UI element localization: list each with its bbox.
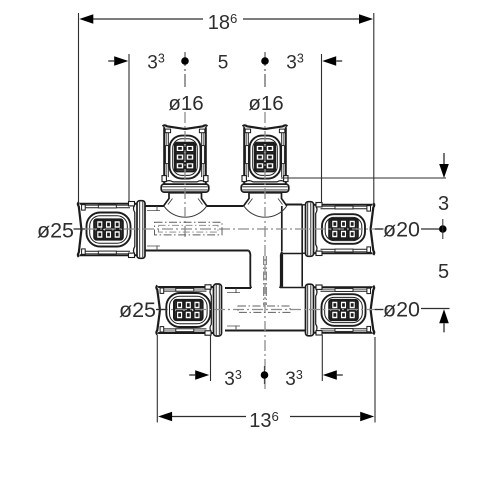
svg-text:ø25: ø25 xyxy=(119,298,156,322)
barrel connector xyxy=(249,251,283,292)
dim 18-6 extension line right xyxy=(373,13,375,203)
svg-text:ø16: ø16 xyxy=(168,92,203,115)
svg-text:ø20: ø20 xyxy=(383,298,420,322)
hidden bore lines vertical branch xyxy=(263,256,265,305)
hidden bore box lower xyxy=(238,306,290,312)
centerline port2 vertical xyxy=(264,52,266,87)
dim row2 arrow right xyxy=(322,56,336,66)
port1 socket arc xyxy=(164,206,207,217)
svg-text:5: 5 xyxy=(218,52,229,73)
centerline main tube horizontal xyxy=(86,228,388,230)
press fitting left upper (d25) xyxy=(78,201,145,259)
label d20 upper leader xyxy=(375,228,384,230)
lower tube xyxy=(225,288,306,331)
right collar web between ports xyxy=(282,254,302,288)
press fitting top port1 (d16) xyxy=(161,125,209,192)
dim 13-6 line xyxy=(172,416,246,418)
press fitting top port2 (d16) xyxy=(241,125,289,192)
bottom ext line left xyxy=(210,335,212,381)
press fitting left lower (d25) xyxy=(156,284,221,336)
dim row2 ext line right xyxy=(321,54,323,203)
dim row2 ext line left xyxy=(128,54,130,201)
dim row2 dot port2 xyxy=(261,57,269,65)
dim 13-6 ext line right xyxy=(374,337,376,423)
bottom row dot xyxy=(264,366,266,384)
lower tube inner wall lines xyxy=(227,292,240,294)
main tube xyxy=(145,206,283,251)
bottom row arrow right xyxy=(323,370,337,380)
dim 13-6 ext line left xyxy=(156,335,158,423)
centerline lower tube horizontal xyxy=(157,309,388,311)
collar-flange connector lines lower xyxy=(302,287,306,289)
port1 neck and flare xyxy=(164,193,207,206)
centerline port1 vertical xyxy=(184,52,186,87)
collar-flange connector lines upper xyxy=(302,204,306,206)
tube collar tick left xyxy=(156,206,158,211)
svg-text:5: 5 xyxy=(438,261,449,283)
right ext line top xyxy=(281,177,446,179)
hidden bore box upper xyxy=(155,222,223,235)
svg-text:ø20: ø20 xyxy=(383,218,420,242)
press fitting right upper (d20) xyxy=(306,202,375,257)
bottom ext line right xyxy=(321,335,323,381)
dim 18-6 arrow right xyxy=(359,14,373,24)
dim 18-6 line xyxy=(93,18,203,20)
tube inner wall lines xyxy=(147,210,160,212)
dim row2 arrow left xyxy=(114,56,128,66)
right dim dot xyxy=(439,225,447,233)
port2 socket arc xyxy=(244,206,287,217)
right collar block upper xyxy=(282,205,302,252)
dim 18-6 extension line left xyxy=(78,13,80,203)
right dim arrow down xyxy=(439,164,449,178)
lower tube collar tick xyxy=(235,288,237,293)
dim 13-6 arrow right xyxy=(360,412,374,422)
hidden bore box upper inner xyxy=(159,225,219,232)
bottom row arrow left xyxy=(195,370,209,380)
right dim arrow up xyxy=(439,309,449,323)
port2 neck and flare xyxy=(244,193,287,206)
press fitting right lower (d20) xyxy=(306,284,375,336)
label d20 lower leader xyxy=(375,309,384,311)
svg-text:ø16: ø16 xyxy=(248,92,283,115)
svg-text:3: 3 xyxy=(438,193,449,215)
dim row2 dot port1 xyxy=(181,57,189,65)
dim 18-6 arrow left xyxy=(79,14,93,24)
svg-text:ø25: ø25 xyxy=(37,219,74,243)
dim 13-6 arrow left xyxy=(158,412,172,422)
